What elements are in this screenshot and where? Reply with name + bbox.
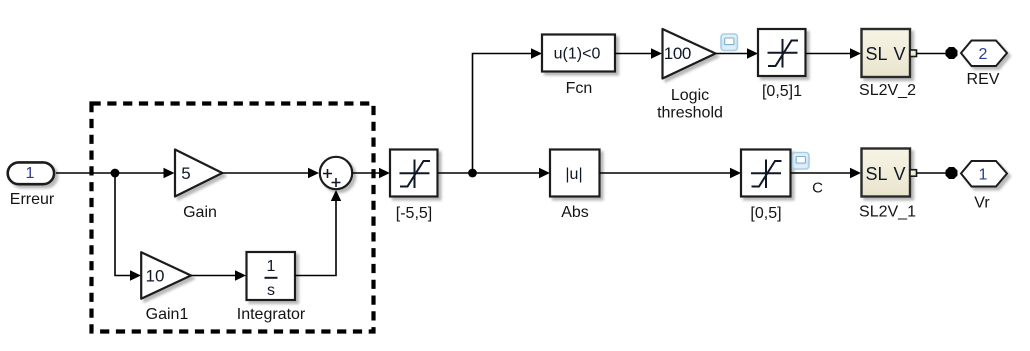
viewer badge at [0,5] output — [793, 153, 810, 170]
input port 1 Erreur — [8, 162, 54, 184]
subsystem block SL2V_2 — [862, 29, 911, 77]
svg-text:SL: SL — [866, 44, 888, 64]
wire node B to Abs — [473, 172, 542, 174]
svg-text:SL2V_2: SL2V_2 — [859, 82, 916, 99]
svg-text:threshold: threshold — [657, 105, 723, 122]
svg-text:[0,5]: [0,5] — [750, 205, 781, 222]
abs block Abs — [550, 150, 600, 197]
node B branch dot — [468, 169, 477, 178]
svg-text:100: 100 — [664, 44, 691, 63]
wire SL2V_1 to Vr port — [917, 172, 948, 174]
svg-text:V: V — [894, 44, 906, 64]
svg-text:SL2V_1: SL2V_1 — [859, 204, 916, 221]
svg-text:Logic: Logic — [671, 87, 709, 104]
svg-text:1: 1 — [979, 167, 988, 184]
svg-text:Gain1: Gain1 — [146, 306, 189, 323]
svg-text:V: V — [894, 164, 906, 184]
svg-text:Erreur: Erreur — [10, 191, 55, 208]
svg-text:s: s — [267, 282, 275, 299]
dashed subsystem boundary — [92, 104, 374, 332]
gain block Logic threshold (100) — [663, 29, 716, 79]
svg-text:Fcn: Fcn — [566, 80, 593, 97]
wire Logic threshold to [0,5]1 — [716, 53, 750, 55]
svg-text:C: C — [812, 180, 823, 197]
integrator block Integrator 1/s — [247, 252, 296, 300]
svg-text:[0,5]1: [0,5]1 — [762, 83, 802, 100]
svg-text:SL: SL — [866, 164, 888, 184]
output port 1 Vr — [961, 161, 1007, 187]
svg-text:Abs: Abs — [561, 204, 589, 221]
wire node A to Gain — [115, 172, 165, 174]
svg-text:Vr: Vr — [974, 195, 990, 212]
wire Integrator to Sum — [295, 200, 336, 276]
gain block Gain1 (10) — [141, 252, 191, 299]
saturation block [0,5] — [741, 150, 791, 197]
wire Saturation to node B — [438, 172, 473, 174]
sum block Sum — [320, 157, 352, 189]
saturation block [-5,5] — [390, 150, 438, 197]
viewer badge at Logic threshold output — [721, 34, 738, 51]
svg-text:Gain: Gain — [183, 204, 217, 221]
svg-text:u(1)<0: u(1)<0 — [554, 46, 601, 63]
svg-text:[-5,5]: [-5,5] — [396, 205, 432, 222]
saturation block [0,5]1 — [758, 29, 806, 76]
subsystem block SL2V_1 — [862, 149, 911, 197]
wire node A down to Gain1 — [115, 173, 132, 276]
wire Gain to Sum — [222, 172, 311, 174]
node Vr junction black octagon — [946, 167, 958, 179]
gain block Gain (5) — [175, 150, 222, 197]
svg-text:1: 1 — [267, 258, 276, 275]
svg-text:5: 5 — [181, 164, 190, 183]
wire Abs to Saturation [0,5] — [600, 172, 733, 174]
svg-text:1: 1 — [26, 165, 35, 182]
wire Erreur to node A — [56, 172, 114, 174]
wire Gain1 to Integrator — [191, 275, 237, 277]
wire Fcn to Logic threshold — [615, 53, 653, 55]
wire SL2V_2 to REV port — [917, 53, 948, 55]
wire [0,5] to SL2V_1 — [791, 172, 853, 174]
wire node B up to Fcn — [473, 54, 534, 174]
node A branch dot — [111, 169, 120, 178]
node REV junction black octagon — [946, 47, 958, 59]
svg-text:2: 2 — [979, 46, 988, 63]
svg-text:10: 10 — [146, 267, 165, 286]
svg-text:|u|: |u| — [565, 166, 582, 183]
fcn block Fcn u(1)<0 — [542, 35, 615, 72]
output port 2 REV — [961, 41, 1007, 67]
wire [0,5]1 to SL2V_2 — [806, 53, 853, 55]
svg-text:Integrator: Integrator — [237, 306, 306, 323]
wire Sum to Saturation [-5,5] — [352, 172, 381, 174]
svg-text:REV: REV — [967, 71, 1000, 88]
